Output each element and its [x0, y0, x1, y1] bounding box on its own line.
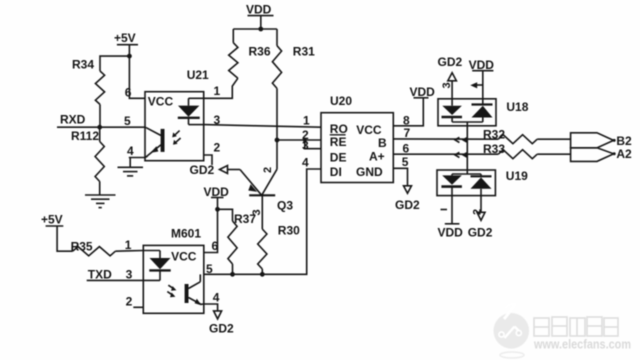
connector B2/A2: [571, 133, 616, 162]
wire U20 pin 3 stub: [305, 140, 321, 149]
node R30/DI line: [260, 272, 265, 277]
optocoupler M601: [143, 227, 204, 314]
power +5V (lower): [41, 213, 63, 227]
wire R33 to connector A2: [537, 153, 570, 155]
wire U20 pin 5 to GD2: [393, 168, 407, 186]
svg-text:GD2: GD2: [190, 163, 215, 177]
svg-text:6: 6: [212, 239, 219, 253]
svg-text:TXD: TXD: [88, 268, 112, 282]
svg-text:GD2: GD2: [468, 226, 493, 240]
svg-text:U19: U19: [506, 169, 528, 183]
svg-text:A+: A+: [369, 150, 385, 164]
svg-text:GD2: GD2: [209, 322, 234, 336]
svg-text:B2: B2: [616, 134, 632, 148]
svg-text:M601: M601: [171, 227, 201, 241]
resistor R34: [72, 58, 105, 105]
wire U21 pin 1 to R36: [204, 78, 238, 98]
power VDD (near M601): [204, 185, 230, 199]
wire A line (U20 pin 6 to R33): [393, 153, 498, 155]
svg-text:R30: R30: [278, 224, 300, 238]
svg-text:U21: U21: [187, 68, 209, 82]
optocoupler U21: [145, 68, 209, 161]
power +5V (top): [114, 31, 138, 45]
svg-text:Q3: Q3: [277, 199, 293, 213]
wire U18/U19 common leg: [466, 122, 468, 174]
svg-text:U20: U20: [330, 94, 352, 108]
junction arrows on B line: [455, 137, 467, 143]
svg-text:RO: RO: [330, 122, 348, 136]
wire B line (U20 pin 7 to R32): [393, 138, 498, 140]
ground below U21 pin 4: [118, 167, 144, 176]
svg-text:2: 2: [262, 167, 274, 173]
svg-text:www.elecfans.com: www.elecfans.com: [533, 337, 631, 352]
svg-text:4: 4: [213, 291, 220, 305]
svg-text:4: 4: [302, 156, 309, 170]
power VDD (above U20 pin 8): [410, 85, 436, 99]
wire GD2 to Q3 emitter: [228, 169, 241, 171]
power port GD2 (above U18): [438, 55, 463, 99]
wire U20 pin 2: [277, 139, 321, 141]
wire R37 to DI line: [232, 264, 234, 274]
svg-text:1: 1: [125, 238, 132, 252]
wire M601 pin 2 stub: [133, 306, 143, 308]
resistor R37: [228, 209, 263, 264]
resistor R33: [483, 142, 537, 159]
power VDD (top): [246, 3, 274, 17]
svg-text:4: 4: [127, 144, 134, 158]
svg-text:3: 3: [251, 209, 263, 215]
wire U21 pin 4 to ground: [129, 158, 145, 168]
svg-text:VDD: VDD: [438, 226, 464, 240]
wire TXD to M601 pin 3: [87, 279, 144, 281]
watermark: [494, 304, 632, 359]
power port GD2 (below M601): [209, 311, 234, 336]
node +5V/R34 junction: [127, 54, 132, 59]
svg-text:5: 5: [402, 155, 409, 169]
power VDD (below U19): [438, 196, 464, 240]
wire M601 pin 5 to U20 pin 4 (DI): [204, 169, 321, 274]
svg-text:R31: R31: [293, 45, 315, 59]
svg-text:VCC: VCC: [148, 95, 174, 109]
wire R31 down to Q3 collector: [276, 88, 278, 169]
svg-text:5: 5: [206, 262, 213, 276]
resistor R31: [272, 45, 315, 89]
power port GD2 (below U19): [468, 196, 493, 240]
wire RXD to U21 pin 5: [57, 126, 146, 128]
svg-text:B: B: [378, 136, 387, 150]
svg-text:1: 1: [303, 113, 310, 127]
svg-text:U18: U18: [506, 100, 528, 114]
svg-text:VDD: VDD: [246, 3, 272, 17]
svg-text:RXD: RXD: [60, 113, 86, 127]
wire R30 to DI line: [261, 269, 263, 274]
wire VDD to M601 pin 6: [204, 198, 218, 253]
svg-text:GD2: GD2: [438, 55, 463, 69]
svg-text:A2: A2: [616, 147, 632, 161]
wire junction to R34: [100, 56, 129, 71]
svg-text:7: 7: [404, 126, 411, 140]
svg-text:+5V: +5V: [114, 31, 136, 45]
svg-text:3: 3: [302, 139, 309, 153]
wire R34 to RXD node: [99, 104, 101, 127]
power port GD2 (below U20): [395, 186, 420, 212]
wire U21 pin 3 to U20 pin 1: [204, 125, 321, 128]
svg-text:+5V: +5V: [41, 213, 63, 227]
svg-text:R33: R33: [483, 142, 505, 156]
node RXD/R112: [97, 125, 102, 130]
svg-text:R34: R34: [72, 58, 94, 72]
svg-text:DE: DE: [330, 151, 347, 165]
node VDD split: [258, 27, 263, 32]
svg-text:RE: RE: [330, 135, 347, 149]
ic U20: [321, 94, 393, 183]
node R31/U20 pin 2: [275, 138, 280, 143]
svg-text:5: 5: [124, 114, 131, 128]
ground below R112: [85, 195, 116, 208]
svg-text:R35: R35: [71, 240, 93, 254]
resistor R30: [258, 224, 300, 270]
svg-text:R32: R32: [483, 128, 505, 142]
power port GD2 (near Q3): [190, 163, 228, 177]
resistor R112: [71, 127, 104, 194]
svg-text:3: 3: [441, 82, 453, 88]
svg-text:R36: R36: [249, 45, 271, 59]
svg-text:R112: R112: [71, 129, 99, 143]
tvs array U18: [438, 99, 529, 126]
wire node to R37 top: [218, 209, 233, 221]
power VDD (above U18): [469, 58, 495, 99]
junction arrows on A line: [455, 152, 467, 158]
svg-text:VDD: VDD: [469, 58, 495, 72]
resistor R35: [71, 240, 116, 256]
wire U21 pin 2 down to GD2 net: [204, 155, 212, 165]
wire M601 pin 4 to GD2: [204, 304, 218, 311]
wire Q3 base to R30: [261, 195, 263, 229]
tvs array U19: [437, 169, 528, 196]
node VDD/R37: [215, 207, 220, 212]
svg-text:2: 2: [214, 141, 221, 155]
transistor Q3: [240, 167, 293, 213]
svg-text:3: 3: [126, 268, 133, 282]
svg-text:VCC: VCC: [356, 123, 382, 137]
wire +5V to U21 pin 6: [129, 45, 145, 99]
wire +5V to R35: [57, 226, 73, 251]
svg-text:GD2: GD2: [395, 198, 420, 212]
node pin3 stub: [303, 139, 307, 143]
svg-text:GND: GND: [356, 165, 383, 179]
node R37/DI line: [230, 272, 235, 277]
svg-text:2: 2: [126, 295, 133, 309]
wire U20 pin 8 to VDD: [393, 98, 423, 126]
svg-text:VDD: VDD: [410, 85, 436, 99]
wire VDD to R36/R31: [233, 16, 277, 46]
svg-text:DI: DI: [330, 165, 342, 179]
svg-text:VCC: VCC: [171, 250, 197, 264]
wire R35 to M601 pin 1: [115, 250, 143, 253]
resistor R36: [229, 43, 271, 78]
svg-text:6: 6: [125, 86, 132, 100]
resistor R32: [483, 128, 537, 144]
wire R32 to connector B2: [537, 138, 570, 140]
svg-text:1: 1: [214, 84, 221, 98]
